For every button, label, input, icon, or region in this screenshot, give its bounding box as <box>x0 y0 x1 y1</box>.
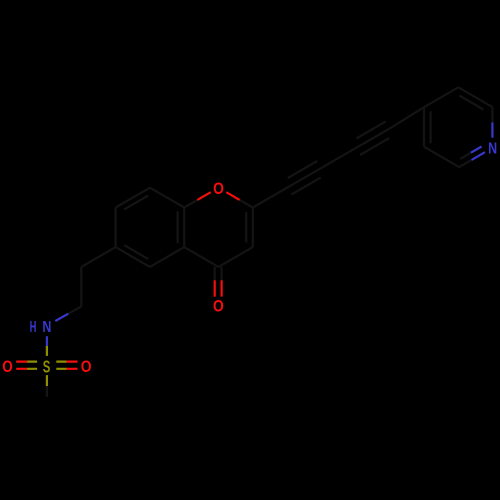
svg-text:O: O <box>213 179 224 198</box>
wire Ca#Cb triple bond <box>287 161 321 195</box>
wire C4-C4a bond <box>184 247 218 267</box>
wire C6py-N outer carbon half <box>458 160 471 168</box>
wire N-S nitrogen half (blue) <box>46 336 48 346</box>
wire S=O left oxygen halves (red) <box>16 362 27 369</box>
svg-text:O: O <box>213 297 224 316</box>
wire C4py-C5py bond <box>423 107 425 147</box>
wire C2-C3 bond <box>252 208 254 248</box>
wire N-S sulfur half (olive) <box>46 346 48 356</box>
wire CH2a-CH2b bond <box>80 267 82 307</box>
svg-text:N: N <box>488 140 497 157</box>
wire C3-C4 bond <box>219 247 253 267</box>
svg-text:N: N <box>42 319 51 336</box>
wire Cc#Cd triple bond <box>356 121 390 155</box>
wire S-CH3 carbon half <box>46 386 48 397</box>
wire C4a-C8a bond <box>183 208 185 248</box>
wire C2-Ca bond <box>253 188 287 208</box>
wire C2py-N carbon half <box>491 107 493 122</box>
wire Npy=C6py inner nitrogen half (blue) <box>471 147 482 153</box>
wire C6py=N inner carbon half <box>460 153 471 159</box>
wire Npy-C2py nitrogen half (blue) <box>491 122 493 137</box>
wire O1-C8a carbon half <box>184 200 197 208</box>
wire C6-CH2a bond <box>81 247 115 267</box>
wire Cd-C4py bond <box>390 107 424 128</box>
wire C5py-C6py bond <box>424 147 458 167</box>
wire C4=O carbon halves of double bond <box>215 267 222 280</box>
wire S=O right sulfur halves (olive) <box>56 362 66 369</box>
wire S=O left sulfur halves (olive) <box>27 362 37 369</box>
wire C4a=C8a inner aromatic line <box>177 211 179 243</box>
wire O1-C2 carbon half <box>240 200 253 208</box>
wire O1-C8a oxygen half (red) <box>197 192 210 200</box>
wire C3py=C2py inner aromatic line <box>459 96 483 110</box>
wire Cb-Cc bond <box>321 148 355 168</box>
wire O1-C2 oxygen half (red) <box>226 192 239 200</box>
wire NH-CH2b nitrogen half (blue) <box>55 314 68 321</box>
wire C5-C4a bond <box>150 247 184 267</box>
wire CH2b-N carbon half <box>68 307 81 314</box>
wire C8=C7 inner aromatic line <box>124 196 148 210</box>
wire C2=C3 inner double line <box>245 212 247 242</box>
wire C8-C7 bond <box>116 188 150 208</box>
wire Npy=C6py outer nitrogen half (blue) <box>472 152 485 160</box>
wire C8a-C8 bond <box>150 188 184 208</box>
wire C3py-C2py bond <box>458 87 492 107</box>
wire C6-C5 bond <box>116 247 150 267</box>
wire S-CH3 sulfur half (olive) <box>46 375 48 386</box>
wire C6=C5 inner aromatic line <box>124 245 148 259</box>
svg-text:O: O <box>2 357 13 376</box>
wire C7-C6 bond <box>114 208 116 248</box>
svg-text:S: S <box>43 357 51 377</box>
wire S=O right oxygen halves (red) <box>66 362 77 369</box>
wire C4py=C5py inner aromatic line <box>430 111 432 143</box>
svg-text:O: O <box>81 357 92 376</box>
svg-text:H: H <box>30 319 37 336</box>
wire C4=O oxygen halves (red double line) <box>215 280 222 296</box>
wire C4py-C3py bond <box>424 87 458 107</box>
